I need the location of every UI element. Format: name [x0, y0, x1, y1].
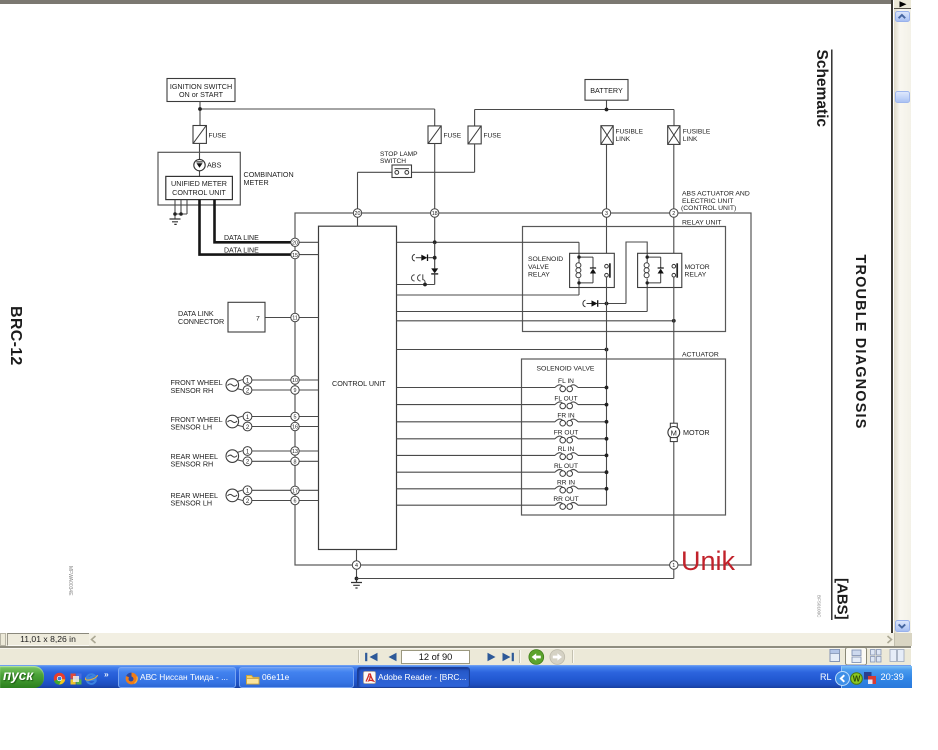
wire data line 1 (bold) [215, 200, 296, 243]
ABS warning lamp [194, 159, 222, 170]
wire fusible links down to pins 3 and 2 [607, 144, 674, 208]
svg-text:W: W [853, 674, 861, 683]
svg-text:CONTROL UNIT: CONTROL UNIT [332, 379, 386, 388]
node battery junction [605, 108, 609, 112]
page number box: 12 of 90 [401, 650, 470, 664]
front wheel sensor LH [171, 412, 252, 431]
ground (combination meter) [170, 219, 181, 224]
tray green icon [850, 672, 863, 685]
task button 3 (active): Adobe Reader [357, 667, 471, 688]
diode D2 (vertical, pointing down) [431, 268, 438, 284]
forward (gray) button [549, 649, 566, 665]
wire battery feed [475, 100, 674, 126]
window pane right border [891, 0, 893, 633]
relay unit box [523, 219, 726, 331]
svg-text:RL OUT: RL OUT [554, 463, 578, 470]
pin 11 (data link) [291, 313, 299, 321]
svg-text:16: 16 [292, 425, 298, 431]
solenoid valve RL OUT [397, 463, 609, 477]
toolbar separators [358, 650, 360, 663]
wire fuse F2 down to pin 18 [434, 144, 436, 209]
first page button [362, 650, 382, 664]
next page button [482, 650, 500, 664]
svg-text:4: 4 [355, 563, 358, 569]
wire control unit to motor line [397, 320, 674, 322]
task button 2: 06e11e [239, 667, 354, 687]
node motor relay coil / pin3 line junction [605, 302, 609, 306]
wire top pins into unit [358, 217, 674, 264]
scrollbar thumb [895, 91, 910, 103]
pin 1 (bottom) [670, 561, 678, 569]
svg-text:STOP LAMP: STOP LAMP [380, 151, 418, 158]
node hooks junction [423, 283, 427, 287]
svg-text:ELECTRIC UNIT: ELECTRIC UNIT [682, 198, 733, 205]
wire motor line down [673, 277, 675, 561]
system tray [841, 666, 912, 688]
quick launch: chrome icon [53, 672, 66, 685]
fuse F1 (ignition, left) [193, 126, 227, 144]
svg-text:CONTROL UNIT: CONTROL UNIT [172, 188, 226, 197]
svg-text:ACTUATOR: ACTUATOR [682, 351, 719, 358]
svg-text:(CONTROL UNIT): (CONTROL UNIT) [681, 205, 736, 212]
svg-text:13: 13 [292, 449, 298, 455]
pin 13 [291, 447, 299, 455]
pin 6 [291, 496, 299, 504]
svg-text:SENSOR LH: SENSOR LH [171, 498, 213, 507]
fuse F2 (ignition, right) [428, 126, 462, 144]
white area below taskbar [0, 688, 938, 750]
svg-text:RELAY: RELAY [685, 271, 707, 278]
svg-text:RR OUT: RR OUT [553, 496, 578, 503]
svg-text:20: 20 [292, 241, 298, 247]
svg-text:SOLENOID: SOLENOID [528, 256, 563, 263]
pin 4 (bottom) [352, 561, 360, 569]
svg-text:M: M [671, 428, 677, 437]
svg-text:FR OUT: FR OUT [554, 430, 579, 437]
quick launch chevron [104, 669, 116, 679]
svg-text:RR IN: RR IN [557, 480, 575, 487]
svg-text:FUSE: FUSE [484, 132, 502, 139]
svg-text:Unik: Unik [681, 546, 736, 576]
svg-text:7: 7 [256, 315, 260, 322]
wire control unit to SV relay coil bottom [397, 283, 580, 295]
connector hooks (inline connectors) [412, 274, 426, 284]
svg-text:ABS: ABS [207, 161, 222, 170]
svg-text:FL OUT: FL OUT [554, 395, 577, 402]
svg-text:SWITCH: SWITCH [380, 158, 406, 165]
svg-text:9: 9 [294, 388, 297, 394]
solenoid valve relay [528, 253, 614, 287]
TASKBAR [0, 665, 911, 688]
wire pin3 line through relay to solenoid bus [606, 277, 608, 505]
pin 5 [291, 412, 299, 420]
svg-text:2: 2 [672, 211, 675, 217]
wire ignition feed [200, 102, 435, 126]
svg-text:17: 17 [292, 489, 298, 495]
actuator box [522, 351, 726, 515]
svg-text:VALVE: VALVE [528, 264, 549, 271]
pin 10 [291, 376, 299, 384]
fuse F3 (battery / stop lamp) [468, 126, 502, 144]
svg-text:ON or START: ON or START [179, 90, 224, 99]
solenoid valve FR OUT [397, 430, 609, 444]
pin 3 (top) [602, 209, 610, 217]
tray hide-icons chevron button [835, 671, 850, 686]
svg-text:11: 11 [292, 316, 298, 322]
svg-text:SENSOR RH: SENSOR RH [171, 386, 214, 395]
pin 16 [291, 422, 299, 430]
svg-text:[ABS]: [ABS] [834, 578, 851, 620]
svg-text:SENSOR LH: SENSOR LH [171, 422, 213, 431]
unified meter control unit box [166, 176, 233, 199]
separator line [0, 646, 911, 647]
vertical scrollbar track [894, 9, 912, 633]
pin 18 (top) [431, 209, 439, 217]
wire pin1 to ground run [357, 569, 674, 578]
svg-text:RELAY: RELAY [528, 271, 550, 278]
tray red/blue icon [863, 671, 877, 685]
svg-text:BATTERY: BATTERY [590, 86, 623, 95]
motor relay [638, 253, 710, 287]
svg-text:MOTOR: MOTOR [683, 428, 710, 437]
pin 20 (left, data line) [291, 238, 299, 246]
svg-text:LINK: LINK [683, 136, 698, 143]
svg-text:FR IN: FR IN [557, 413, 574, 420]
fusible link FL1 [601, 126, 644, 145]
svg-text:5: 5 [294, 415, 297, 421]
combination meter box [158, 152, 294, 205]
scrollbar down button [895, 620, 910, 632]
svg-text:Schematic: Schematic [813, 50, 830, 128]
svg-text:FUSIBLE: FUSIBLE [683, 129, 711, 136]
svg-text:FUSE: FUSE [444, 132, 462, 139]
svg-text:FUSE: FUSE [209, 132, 227, 139]
toolbar row [0, 648, 911, 665]
wire data line 2 (bold) [200, 200, 296, 255]
quick launch: IE icon [85, 672, 98, 686]
solenoid valve FL IN [397, 378, 609, 392]
svg-text:UNIFIED METER: UNIFIED METER [171, 179, 227, 188]
node solenoid bus top junction [605, 348, 609, 352]
svg-text:SENSOR RH: SENSOR RH [171, 459, 214, 468]
previous page button [383, 650, 401, 664]
svg-text:DATA LINE: DATA LINE [224, 248, 259, 255]
wire pin18 vertical to diodes [434, 242, 436, 268]
node motor line junction [672, 319, 676, 323]
right white margin [911, 0, 938, 750]
svg-text:10: 10 [292, 378, 298, 384]
svg-text:SOLENOID VALVE: SOLENOID VALVE [537, 366, 595, 373]
solenoid valve RL IN [397, 446, 609, 460]
pin 20 (top) [353, 209, 361, 217]
stop lamp switch [380, 151, 418, 178]
svg-text:BRC-12: BRC-12 [7, 306, 24, 366]
wire control unit to SV relay coil top [397, 242, 580, 257]
top-right corner button with black triangle [894, 0, 912, 9]
top gray strip (window chrome) [0, 0, 892, 4]
last page button [498, 650, 518, 664]
node ignition junction [198, 107, 202, 111]
horizontal scrollbar row [0, 633, 911, 647]
solenoid valve FL OUT [397, 395, 609, 409]
wire meter ground stubs [175, 200, 187, 219]
svg-text:8: 8 [294, 460, 297, 466]
wire control unit y284.5 with connector hooks [397, 284, 435, 286]
svg-text:3: 3 [605, 211, 608, 217]
start button (пуск) [0, 666, 44, 688]
svg-text:MOTOR: MOTOR [685, 264, 710, 271]
svg-text:FL IN: FL IN [558, 378, 574, 385]
task button 1: ABS Ниссан Тиида [118, 667, 236, 687]
svg-text:RELAY UNIT: RELAY UNIT [682, 219, 721, 226]
fusible link FL2 [668, 126, 711, 145]
pin 2 (top) [670, 209, 678, 217]
ground (control unit) [351, 579, 362, 589]
wire control unit to motor relay coil bottom [397, 283, 648, 312]
rear wheel sensor RH [171, 447, 252, 469]
diode D3 (to motor relay coil) [583, 300, 598, 307]
svg-text:METER: METER [244, 178, 269, 187]
wire stop lamp switch net [358, 144, 475, 209]
svg-text:ABS ACTUATOR AND: ABS ACTUATOR AND [682, 191, 750, 198]
svg-text:LINK: LINK [616, 136, 631, 143]
svg-text:20: 20 [355, 211, 361, 217]
svg-text:MFWA0034E: MFWA0034E [67, 566, 73, 596]
ABS actuator and electric unit outer box [295, 213, 751, 565]
front wheel sensor RH [171, 376, 252, 395]
page size box: 11,01 x 8,26 in [7, 633, 89, 646]
wire control unit bottom to pin 4 and ground [356, 550, 358, 579]
pin 17 [291, 486, 299, 494]
svg-text:18: 18 [432, 211, 438, 217]
diode D1 (horizontal, to pin18 line) [412, 254, 434, 261]
node pin18/coil-wire junction [433, 240, 437, 244]
svg-text:15: 15 [292, 253, 298, 259]
back (green) button [528, 649, 545, 665]
tray text RL [820, 672, 838, 684]
node diode D1 junction [433, 256, 437, 260]
svg-text:BFS0100C: BFS0100C [817, 595, 822, 618]
pin 9 [291, 386, 299, 394]
solenoid valve RR OUT [397, 496, 607, 509]
wire left pins to control unit [252, 242, 319, 500]
ignition switch box [167, 79, 235, 102]
scrollbar up button [895, 11, 910, 23]
battery box [585, 80, 628, 101]
quick launch: colorful icon [70, 673, 82, 685]
wire fuse F1 to ABS lamp [199, 143, 201, 176]
svg-text:CONNECTOR: CONNECTOR [178, 317, 224, 326]
tray clock [881, 672, 911, 684]
data link connector box [178, 302, 265, 332]
node ground junction [355, 577, 359, 581]
solenoid valve RR IN [397, 480, 609, 494]
svg-text:FUSIBLE: FUSIBLE [616, 129, 644, 136]
solenoid valve FR IN [397, 413, 609, 427]
wire motor relay coil top loop [599, 242, 648, 304]
svg-text:6: 6 [294, 499, 297, 505]
right margin rule [831, 50, 833, 621]
svg-text:RL IN: RL IN [558, 446, 575, 453]
pin 15 (left, data line) [291, 250, 299, 258]
wire control unit to solenoid bus [397, 349, 607, 351]
node meter ground junctions [173, 212, 177, 216]
control unit box [319, 226, 397, 549]
motor M [668, 423, 710, 441]
svg-text:1: 1 [672, 563, 675, 569]
rear wheel sensor LH [171, 486, 252, 508]
svg-text:TROUBLE DIAGNOSIS: TROUBLE DIAGNOSIS [852, 255, 868, 430]
pin 8 [291, 457, 299, 465]
svg-text:DATA LINE: DATA LINE [224, 235, 259, 242]
page layout buttons [828, 647, 908, 666]
